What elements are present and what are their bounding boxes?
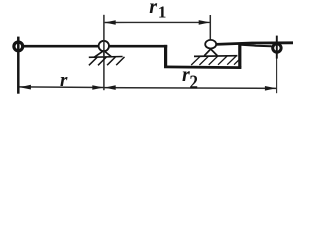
dimension line r1 (105, 21, 210, 23)
fork lower line to right ring (239, 45, 272, 47)
lever from support B over right ring (216, 43, 293, 45)
left ring (input joint) (14, 42, 23, 51)
arrowhead r2 right (265, 86, 276, 91)
support B circle (middle pivot) (205, 40, 216, 49)
svg-text:1: 1 (158, 3, 167, 22)
arrowhead r1 right (199, 20, 210, 25)
extension line left (through support A) (103, 15, 105, 90)
extension line right (to support B) (209, 15, 211, 40)
bottom beam (164, 66, 241, 69)
support A circle (left pivot) (99, 41, 109, 51)
step-down vertical (164, 45, 167, 68)
right ring (slider joint) (273, 44, 281, 52)
svg-text:r: r (149, 0, 157, 18)
arrowhead r1 left (104, 20, 115, 25)
arrowhead r2 left (104, 85, 115, 90)
right ring pin line (276, 36, 278, 59)
support B hatching (191, 56, 240, 65)
arrowhead r left (20, 85, 31, 90)
arrowhead r right (92, 85, 103, 90)
support A triangle (94, 51, 111, 58)
svg-text:r: r (60, 70, 68, 91)
support A ground line (89, 56, 123, 59)
dimension line r (bottom left) (19, 86, 104, 89)
left pin / extension line (17, 37, 20, 94)
svg-text:2: 2 (189, 71, 198, 93)
dimension line r2 (bottom right) (104, 87, 276, 90)
support A hatching (89, 57, 125, 65)
support B triangle (204, 49, 217, 56)
step-up vertical (238, 44, 241, 68)
extension line right ring (below) (276, 56, 278, 93)
support B ground line (194, 55, 237, 58)
upper beam (left link) (16, 45, 167, 48)
extension line over support A (103, 40, 105, 57)
